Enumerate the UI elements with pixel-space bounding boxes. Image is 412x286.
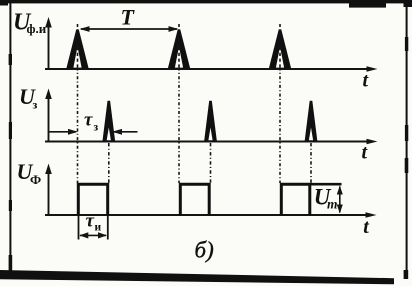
scan frame: bottom border band	[0, 270, 394, 284]
axis arrowhead right row1	[367, 66, 378, 72]
axis arrowhead up row2	[45, 89, 52, 100]
rect pulse row3 #3	[281, 184, 310, 215]
vertical axis row3	[48, 170, 50, 215]
rect pulse row3 #2	[180, 184, 209, 215]
axis arrowhead up row3	[45, 164, 52, 175]
horizontal axis row3 (t)	[45, 214, 368, 216]
T measure double arrow	[80, 26, 179, 32]
dashed line pulse3	[279, 24, 281, 183]
horizontal axis row1 (t)	[45, 68, 369, 70]
pulse row2 #1	[102, 101, 115, 142]
pulse row1 #2	[168, 30, 191, 70]
tau_i extension lines below axis	[79, 216, 108, 240]
tau_z measure arrows	[49, 129, 138, 135]
U_m top level line	[311, 183, 342, 186]
pulse row2 #2	[204, 101, 217, 142]
dashed line pulse2	[178, 24, 180, 183]
svg-text:τ: τ	[84, 110, 93, 131]
rect pulse row3 #1	[78, 184, 107, 215]
tau_i double arrow	[79, 232, 107, 238]
axis arrowhead right row3	[366, 212, 377, 218]
svg-text:τ: τ	[86, 210, 95, 231]
svg-text:T: T	[121, 5, 136, 30]
scan frame: right border	[404, 5, 409, 279]
pulse row2 #3	[305, 101, 318, 142]
dashed line pulse1	[77, 24, 79, 183]
vertical axis row1	[48, 24, 50, 69]
axis arrowhead right row2	[367, 139, 378, 145]
U_m vertical double arrow	[337, 186, 343, 214]
svg-text:m: m	[327, 196, 338, 211]
svg-text:Ф: Ф	[30, 172, 41, 187]
pulse row1 #1	[66, 30, 89, 70]
vertical axis row2	[48, 95, 50, 142]
scan frame: top border	[0, 0, 412, 8]
dashed line delayed pulse2	[210, 143, 212, 183]
svg-text:б): б)	[195, 238, 214, 263]
scan frame: left border	[9, 3, 13, 275]
svg-text:и: и	[95, 222, 102, 234]
dashed line delayed pulse1	[108, 143, 110, 183]
horizontal axis row2 (t)	[45, 141, 369, 143]
pulse row1 #3	[269, 30, 292, 70]
svg-text:ф.и: ф.и	[27, 21, 47, 36]
axis arrowhead up row1	[45, 17, 52, 28]
svg-text:з: з	[94, 122, 99, 134]
dashed line delayed pulse3	[310, 143, 312, 183]
svg-text:з: з	[33, 98, 38, 112]
